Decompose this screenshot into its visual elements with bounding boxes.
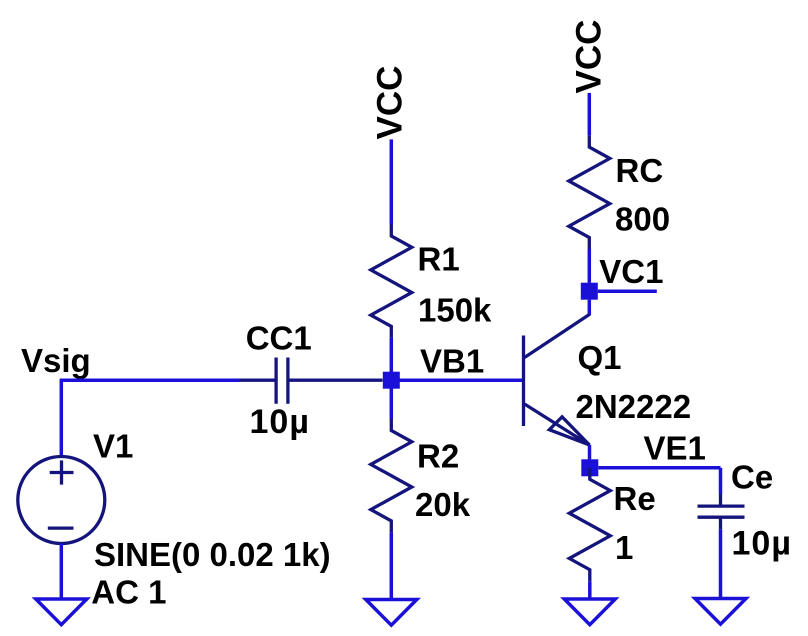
capacitor CC1 (240, 358, 383, 404)
wire V1 to ground (60, 544, 64, 600)
svg-text:150k: 150k (418, 292, 492, 329)
svg-text:RC: RC (616, 152, 664, 189)
wire Vsig horizontal (61, 378, 239, 382)
svg-text:VCC: VCC (570, 20, 609, 94)
wire Ce to ground (719, 529, 723, 598)
resistor R2 (371, 419, 412, 532)
wire VE1 to Ce (598, 466, 720, 470)
svg-text:CC1: CC1 (246, 319, 312, 356)
svg-text:VE1: VE1 (644, 430, 706, 467)
svg-text:10µ: 10µ (250, 403, 310, 441)
svg-text:20k: 20k (415, 486, 471, 523)
svg-text:AC 1: AC 1 (91, 574, 166, 611)
svg-text:800: 800 (615, 201, 670, 238)
wire VC1 down to collector (588, 300, 592, 316)
svg-text:Q1: Q1 (578, 339, 622, 376)
svg-text:VCC: VCC (371, 66, 410, 140)
svg-text:R1: R1 (418, 241, 460, 278)
wire VB1 to base (391, 378, 522, 382)
svg-text:VB1: VB1 (420, 343, 484, 380)
svg-text:10µ: 10µ (732, 525, 792, 563)
wire R2 to ground (390, 532, 394, 599)
resistor RC (569, 136, 610, 249)
svg-text:VC1: VC1 (599, 253, 663, 290)
capacitor Ce (698, 494, 745, 529)
svg-text:2N2222: 2N2222 (576, 388, 692, 425)
ground under R2 (366, 600, 417, 626)
wire down to Ce top plate (719, 468, 723, 494)
svg-text:R2: R2 (417, 438, 459, 475)
node VB1 junction (383, 372, 400, 389)
svg-text:Vsig: Vsig (21, 342, 91, 379)
ground under Ce (695, 599, 746, 625)
svg-text:Re: Re (614, 480, 656, 517)
wire VCC to R1 (390, 139, 394, 224)
ground under Re (564, 599, 615, 625)
resistor R1 (371, 225, 412, 338)
wire VB1 down to R2 (390, 388, 394, 419)
svg-text:SINE(0 0.02 1k): SINE(0 0.02 1k) (94, 536, 331, 573)
svg-text:1: 1 (615, 529, 633, 566)
wire R1 to VB1 (390, 338, 394, 380)
ground under V1 (36, 599, 87, 625)
wire VC1 dangling right (598, 289, 657, 293)
voltage source V1 (18, 457, 105, 544)
wire emitter to VE1 (588, 445, 592, 459)
transistor Q1 (524, 315, 590, 446)
wire VCC to RC (588, 93, 592, 136)
wire Re to ground (588, 581, 592, 599)
wire RC to VC1 (588, 249, 592, 283)
wire Vsig down to V1 (60, 379, 64, 457)
resistor Re (569, 468, 610, 581)
node VE1 junction (581, 459, 598, 476)
node VC1 junction (581, 283, 598, 300)
svg-text:V1: V1 (93, 427, 133, 464)
svg-text:Ce: Ce (731, 459, 773, 496)
